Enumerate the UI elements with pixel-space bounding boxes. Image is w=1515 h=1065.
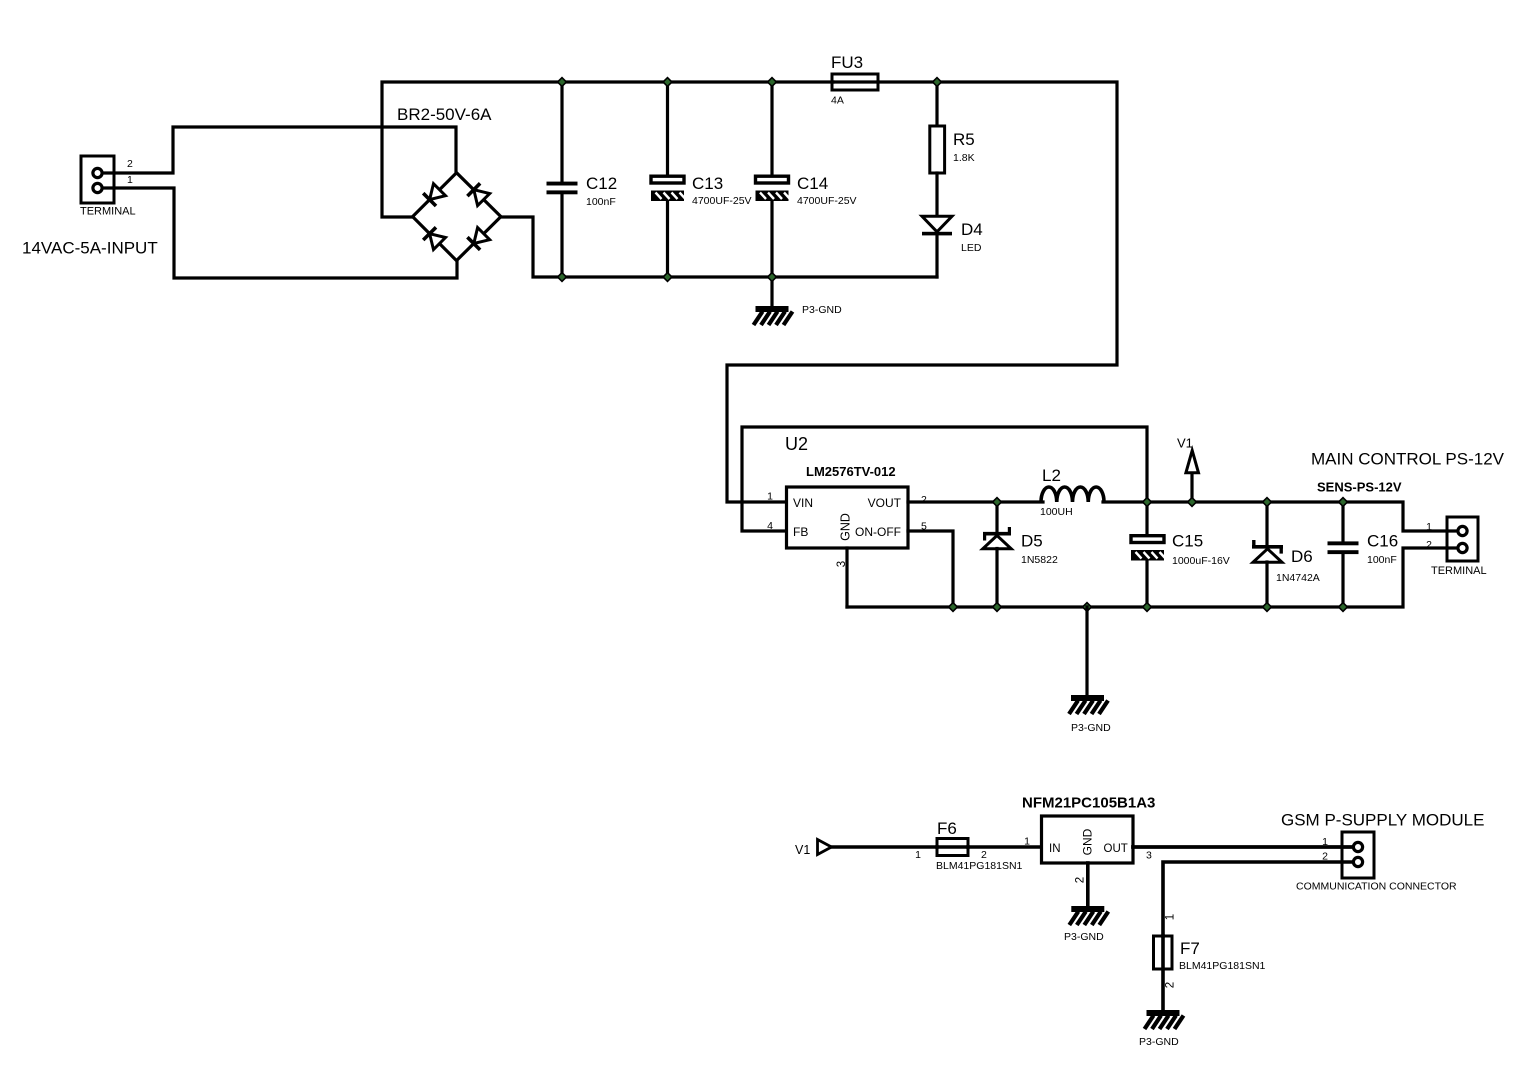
wire C12 to bottom rail (560, 194, 563, 277)
junction output / V1 (1188, 498, 1197, 507)
fuse F7 (1154, 936, 1173, 969)
svg-text:2: 2 (921, 494, 927, 506)
inductor L2 (1041, 487, 1104, 502)
junction top rail / C14 (768, 78, 777, 87)
wire D4 to bottom rail (935, 236, 938, 278)
svg-text:P3-GND: P3-GND (1071, 722, 1111, 734)
svg-text:TERMINAL: TERMINAL (80, 206, 136, 218)
LED D4 (922, 216, 952, 235)
wire secondary ground rail (847, 548, 1458, 607)
wire U2 ON-OFF to ground rail (908, 531, 953, 607)
svg-text:LM2576TV-012: LM2576TV-012 (806, 464, 896, 479)
connector J2 TERMINAL (PS-12V output) (1447, 517, 1478, 561)
svg-text:2: 2 (981, 849, 987, 861)
junction bottom rail / C14 (768, 273, 777, 282)
wire F6 to NFM IN (968, 845, 1041, 849)
wire NFM GND to P3-GND (1086, 863, 1090, 906)
junction top rail / C13 (663, 78, 672, 87)
capacitor C16 (1328, 541, 1359, 554)
svg-text:NFM21PC105B1A3: NFM21PC105B1A3 (1022, 795, 1155, 812)
svg-text:1: 1 (1024, 836, 1030, 848)
svg-text:VOUT: VOUT (868, 496, 902, 510)
svg-text:BLM41PG181SN1: BLM41PG181SN1 (936, 860, 1023, 872)
svg-text:1N4742A: 1N4742A (1276, 572, 1320, 584)
svg-text:P3-GND: P3-GND (1139, 1036, 1179, 1048)
wire ground rail to P3-GND symbol (1085, 607, 1088, 695)
junction bottom rail / C12 (558, 273, 567, 282)
svg-text:FB: FB (793, 525, 808, 539)
svg-text:1: 1 (767, 491, 773, 503)
svg-text:3: 3 (1146, 850, 1152, 862)
junction ground rail / C15 (1143, 603, 1152, 612)
svg-text:SENS-PS-12V: SENS-PS-12V (1317, 480, 1402, 495)
svg-text:1.8K: 1.8K (953, 152, 975, 164)
wire C14 to bottom rail (770, 200, 773, 277)
svg-text:R5: R5 (953, 130, 975, 149)
wire through F7 to ground (1161, 936, 1165, 1010)
svg-text:F6: F6 (937, 819, 957, 838)
capacitor C14 (polarized) (756, 176, 791, 201)
wire L2 to output terminal pin1 (1103, 502, 1458, 531)
capacitor C15 (polarized) (1131, 536, 1166, 561)
svg-text:GND: GND (1081, 828, 1095, 855)
svg-text:V1: V1 (795, 843, 810, 857)
wire D5 anode to ground rail (995, 549, 998, 608)
svg-text:OUT: OUT (1104, 843, 1128, 855)
junction bottom rail / C13 (663, 273, 672, 282)
wire U2 VOUT to L2 (908, 500, 1043, 503)
svg-text:1: 1 (1322, 836, 1328, 848)
svg-text:BLM41PG181SN1: BLM41PG181SN1 (1179, 960, 1266, 972)
junction ground rail / P3-GND (1083, 603, 1092, 612)
wire top rail to R5 (935, 82, 938, 126)
svg-text:4A: 4A (831, 95, 844, 107)
svg-text:C15: C15 (1172, 532, 1203, 551)
junction top rail / C12 (558, 78, 567, 87)
fuse FU3 (832, 74, 878, 90)
junction ground rail / ON-OFF (949, 603, 958, 612)
svg-text:COMMUNICATION CONNECTOR: COMMUNICATION CONNECTOR (1296, 881, 1457, 893)
junction output / C15 / FB (1143, 498, 1152, 507)
wire D6 anode to ground rail (1265, 562, 1268, 607)
op-amp/regulator U2 LM2576TV-012 body (787, 487, 909, 548)
svg-text:100nF: 100nF (586, 196, 616, 208)
wire output to C16 (1341, 502, 1344, 541)
svg-text:GSM P-SUPPLY MODULE: GSM P-SUPPLY MODULE (1281, 811, 1484, 830)
filter U3 NFM21PC105B1A3 body (1042, 816, 1134, 863)
svg-text:2: 2 (1165, 982, 1177, 988)
svg-text:D4: D4 (961, 220, 983, 239)
svg-text:GND: GND (839, 513, 853, 541)
svg-text:TERMINAL: TERMINAL (1431, 565, 1487, 577)
wire V1 to F6 (832, 845, 938, 849)
svg-text:4700UF-25V: 4700UF-25V (692, 195, 752, 207)
svg-text:D6: D6 (1291, 547, 1313, 566)
wire to V1 flag (1190, 473, 1193, 502)
svg-text:VIN: VIN (793, 496, 813, 510)
diode D6 (zener) (1252, 540, 1283, 562)
svg-text:1: 1 (1426, 521, 1432, 533)
resistor R5 (930, 126, 945, 173)
wire through fuse F6 (937, 845, 968, 849)
junction output / C16 (1339, 498, 1348, 507)
svg-text:C14: C14 (797, 174, 828, 193)
wire GSM connector pin2 to F7 (1163, 862, 1353, 936)
svg-text:C16: C16 (1367, 532, 1398, 551)
wire J1 pin2 to bridge AC+ (103, 127, 456, 173)
junction ground rail / D5 (993, 603, 1002, 612)
svg-text:1: 1 (915, 849, 921, 861)
wire through fuse FU3 (833, 80, 878, 83)
junction output / D6 (1263, 498, 1272, 507)
svg-text:14VAC-5A-INPUT: 14VAC-5A-INPUT (22, 239, 158, 258)
wire top rail to C13 (666, 82, 669, 176)
svg-text:U2: U2 (785, 434, 808, 454)
junction ground rail / C16 (1339, 603, 1348, 612)
svg-text:F7: F7 (1180, 939, 1200, 958)
fuse F6 (937, 839, 968, 856)
bridge rectifier BR2 (413, 173, 501, 261)
svg-text:1N5822: 1N5822 (1021, 554, 1058, 566)
svg-text:C12: C12 (586, 174, 617, 193)
wire NFM OUT to GSM connector pin1 (1133, 845, 1353, 849)
svg-text:V1: V1 (1177, 436, 1193, 451)
wire C15 to ground rail (1145, 561, 1148, 608)
svg-text:C13: C13 (692, 174, 723, 193)
power flag V1 (1186, 451, 1199, 473)
junction switch node / D5 (993, 498, 1002, 507)
svg-text:IN: IN (1049, 843, 1061, 855)
svg-text:D5: D5 (1021, 532, 1043, 551)
svg-text:1: 1 (1165, 914, 1177, 920)
svg-text:MAIN CONTROL PS-12V: MAIN CONTROL PS-12V (1311, 450, 1505, 469)
wire bridge - bottom rail (501, 217, 937, 277)
svg-text:100UH: 100UH (1040, 506, 1073, 518)
svg-text:P3-GND: P3-GND (1064, 931, 1104, 943)
wire J1 pin1 to bridge AC- (103, 188, 457, 278)
connector J1 TERMINAL (AC input) (81, 156, 114, 203)
capacitor C13 (polarized) (651, 176, 686, 201)
svg-text:LED: LED (961, 242, 982, 254)
svg-text:4700UF-25V: 4700UF-25V (797, 195, 857, 207)
svg-text:1: 1 (127, 174, 133, 186)
wire bridge + to top rail (382, 82, 833, 217)
wire U2 FB feedback loop (742, 427, 1147, 531)
ground P3-GND (NFM) (1069, 906, 1108, 925)
svg-text:L2: L2 (1042, 466, 1061, 485)
wire U2 GND pin to ground rail (845, 548, 848, 607)
junction top rail / R5 (933, 78, 942, 87)
svg-text:1000uF-16V: 1000uF-16V (1172, 555, 1230, 567)
wire C16 to ground rail (1341, 555, 1344, 608)
wire fuse to U2 VIN (727, 82, 1117, 502)
wire top rail to C14 (770, 82, 773, 176)
ground P3-GND (main) (1069, 695, 1108, 714)
wire top rail to C12 (560, 82, 563, 182)
svg-text:2: 2 (127, 158, 133, 170)
svg-text:FU3: FU3 (831, 53, 863, 72)
ground P3-GND (input stage) (754, 306, 793, 325)
wire R5 to D4 (935, 173, 938, 216)
junction ground rail / D6 (1263, 603, 1272, 612)
svg-text:100nF: 100nF (1367, 554, 1397, 566)
power flag V1 (GSM input) (818, 840, 832, 855)
capacitor C12 (547, 182, 578, 195)
wire output to C15 (1145, 502, 1148, 535)
wire switch node to D5 (995, 502, 998, 532)
svg-text:BR2-50V-6A: BR2-50V-6A (397, 105, 492, 124)
connector J3 (GSM communication) (1342, 832, 1374, 878)
wire C13 to bottom rail (666, 200, 669, 277)
svg-text:2: 2 (1075, 877, 1087, 883)
svg-text:2: 2 (1426, 539, 1432, 551)
svg-text:ON-OFF: ON-OFF (855, 525, 901, 539)
svg-text:2: 2 (1322, 851, 1328, 863)
svg-text:P3-GND: P3-GND (802, 304, 842, 316)
wire output to D6 (1265, 502, 1268, 546)
ground P3-GND (F7) (1145, 1010, 1184, 1029)
wire C14 bottom to ground (770, 277, 773, 306)
diode D5 (schottky) (983, 527, 1011, 549)
